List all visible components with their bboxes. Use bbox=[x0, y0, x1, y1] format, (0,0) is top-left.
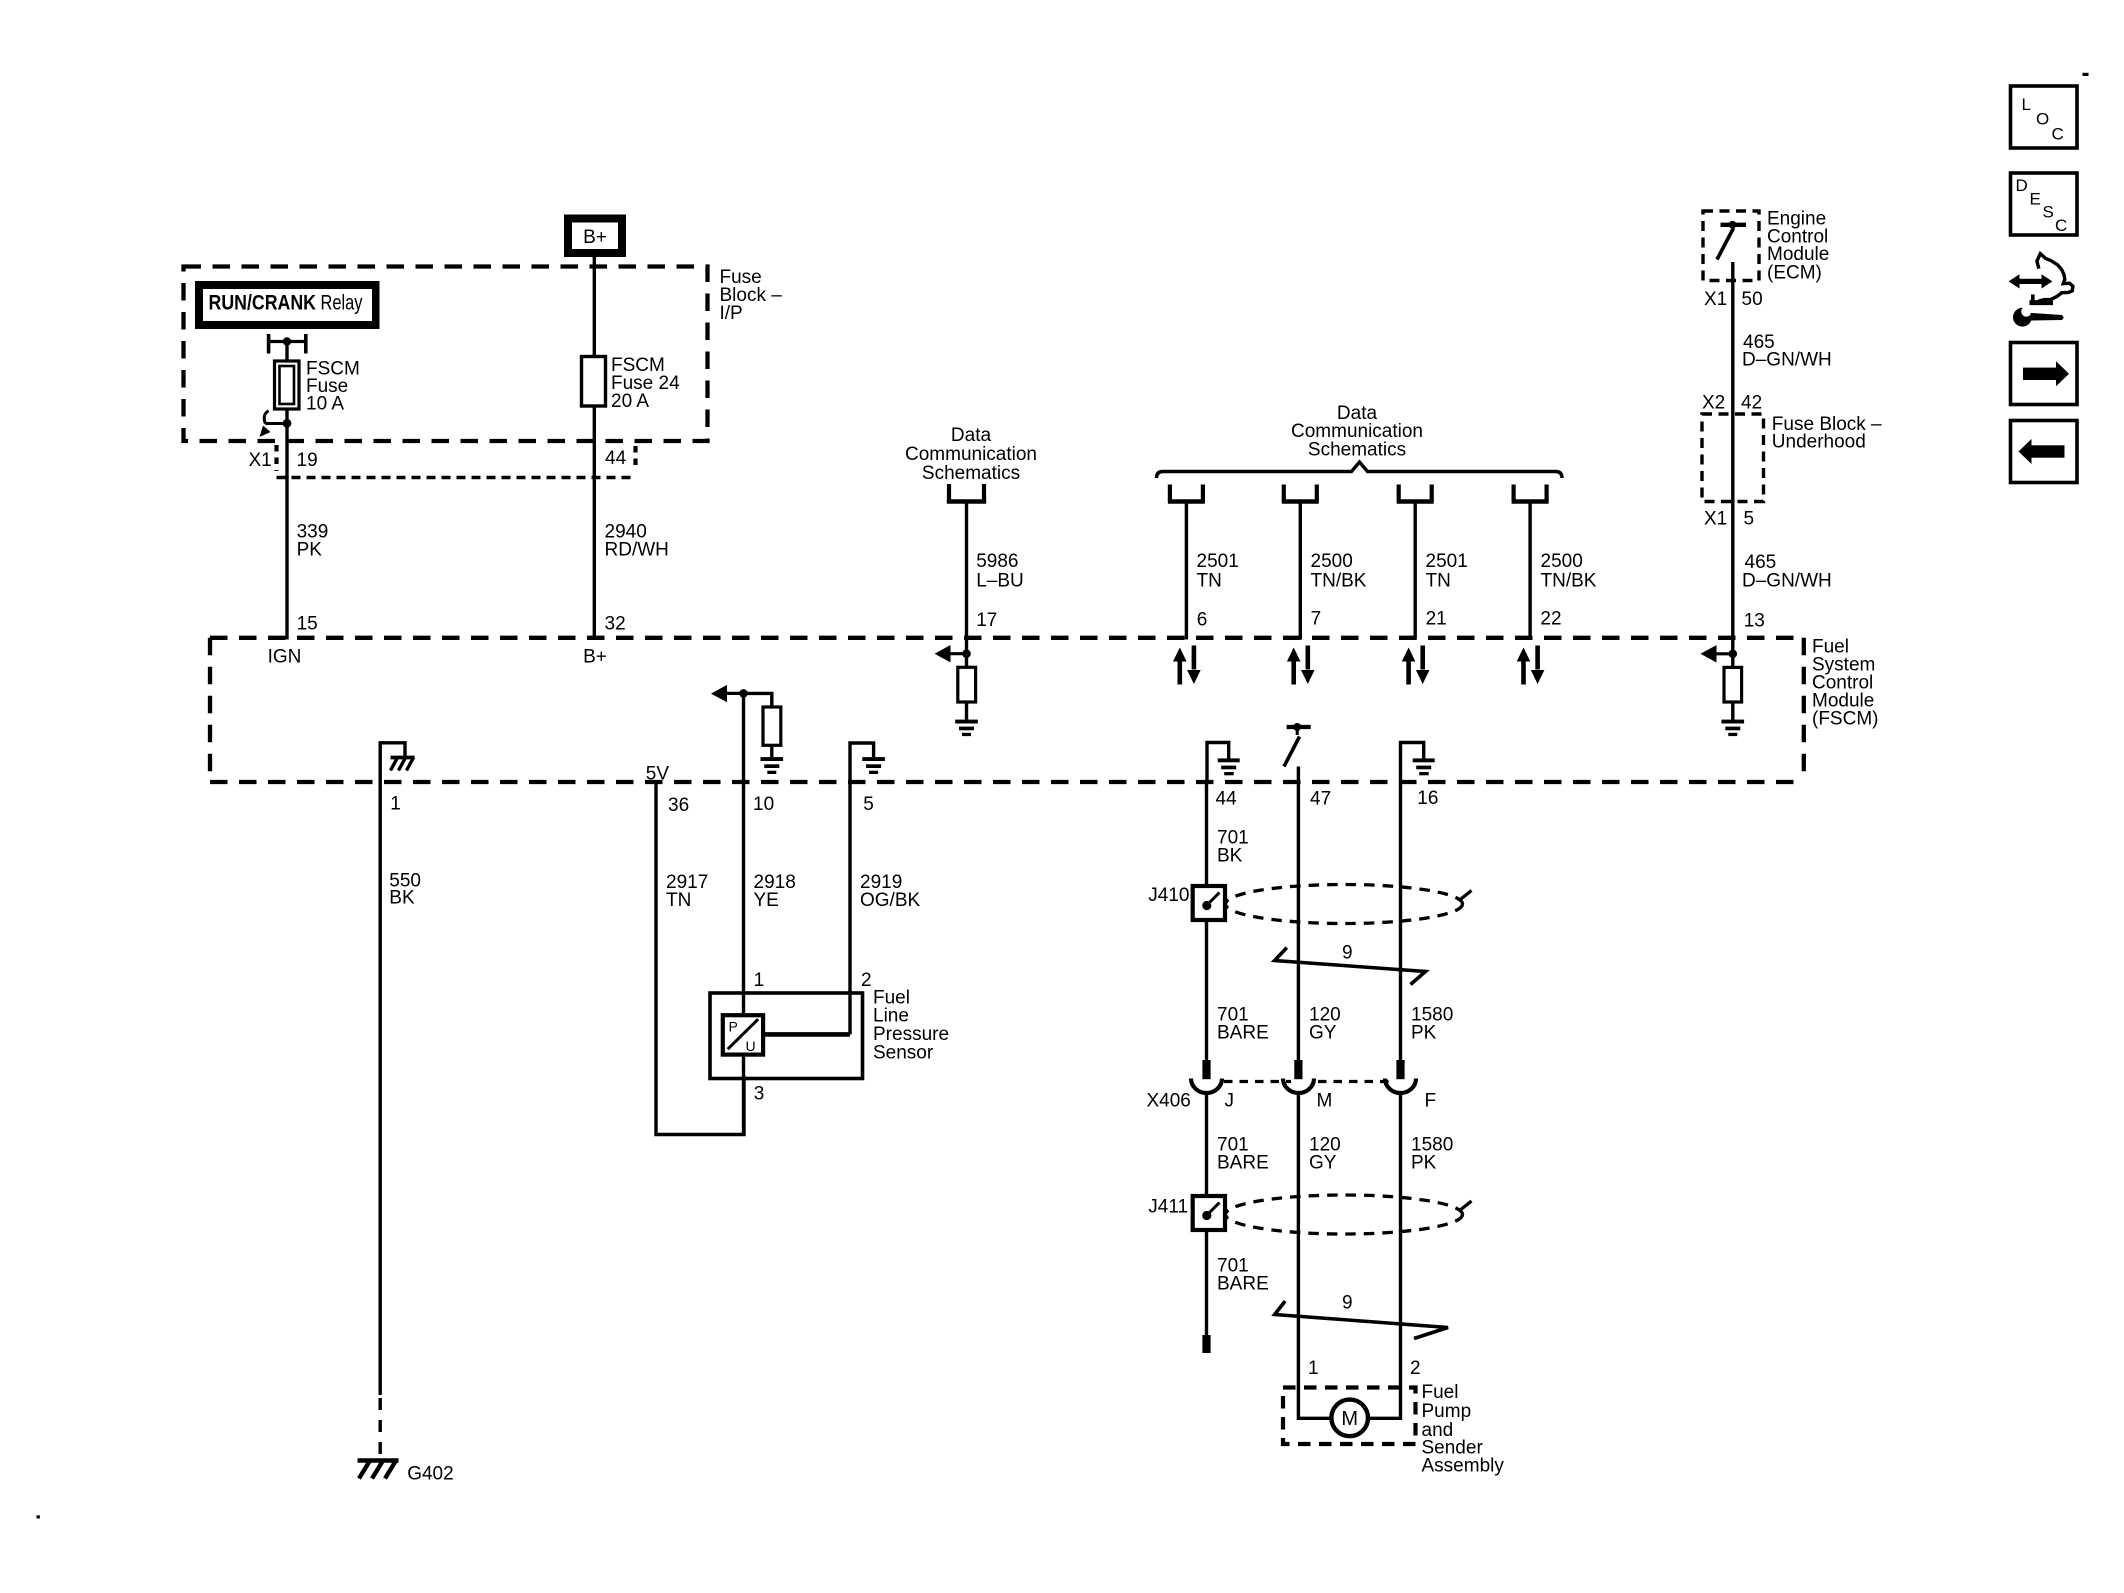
svg-text:C: C bbox=[2052, 125, 2064, 144]
wire 1580 PK pin 16 to X406 bbox=[1401, 782, 1454, 1060]
wire 1580 PK X406 to pump pin 2 bbox=[1368, 1093, 1453, 1418]
icon DESC box bbox=[2011, 173, 2078, 235]
svg-text:M: M bbox=[1341, 1408, 1358, 1430]
pin 21 data arrows bbox=[1402, 646, 1430, 685]
svg-text:TN: TN bbox=[666, 890, 691, 911]
wire 701 BARE below J411 to terminal end bbox=[1207, 1230, 1269, 1335]
svg-text:I/P: I/P bbox=[720, 303, 743, 324]
svg-text:(FSCM): (FSCM) bbox=[1812, 709, 1878, 730]
svg-text:S: S bbox=[2043, 203, 2054, 222]
svg-text:2: 2 bbox=[1410, 1358, 1421, 1379]
icon LOC box bbox=[2011, 86, 2078, 148]
svg-text:B+: B+ bbox=[583, 647, 607, 668]
off-page connector pin 6 bbox=[1168, 485, 1205, 502]
svg-text:(ECM): (ECM) bbox=[1767, 263, 1822, 284]
fuse FSCM Fuse 10 A bbox=[275, 359, 360, 415]
svg-text:1: 1 bbox=[390, 794, 401, 815]
svg-text:5: 5 bbox=[1744, 509, 1755, 530]
svg-text:D–GN/WH: D–GN/WH bbox=[1742, 571, 1832, 592]
svg-text:Assembly: Assembly bbox=[1422, 1456, 1505, 1477]
wire 5986 L-BU to pin 17 bbox=[967, 502, 1024, 640]
svg-text:L: L bbox=[2022, 95, 2031, 114]
connector X1 band pins 19 and 44 bbox=[249, 445, 636, 478]
svg-text:L–BU: L–BU bbox=[976, 571, 1024, 592]
svg-text:P: P bbox=[729, 1019, 738, 1035]
svg-text:X1: X1 bbox=[1704, 509, 1727, 530]
FSCM module dashed box bbox=[210, 637, 1878, 783]
wire 2500 TN/BK pin 7 bbox=[1300, 502, 1366, 640]
svg-text:32: 32 bbox=[605, 613, 626, 634]
bare wire end terminal bbox=[1202, 1335, 1210, 1353]
svg-text:1: 1 bbox=[1308, 1358, 1319, 1379]
pin 6 data arrows bbox=[1173, 646, 1201, 685]
svg-text:D: D bbox=[2016, 176, 2028, 195]
svg-text:U: U bbox=[746, 1038, 756, 1054]
svg-text:TN: TN bbox=[1197, 571, 1222, 592]
svg-text:2500: 2500 bbox=[1311, 551, 1353, 572]
svg-text:7: 7 bbox=[1311, 609, 1322, 630]
svg-text:44: 44 bbox=[605, 448, 627, 469]
P/U transducer symbol bbox=[723, 1015, 763, 1054]
svg-text:GY: GY bbox=[1309, 1153, 1337, 1174]
svg-text:9: 9 bbox=[1342, 1293, 1353, 1314]
svg-text:42: 42 bbox=[1741, 393, 1762, 414]
svg-text:19: 19 bbox=[297, 450, 318, 471]
svg-text:X406: X406 bbox=[1147, 1091, 1191, 1112]
svg-text:36: 36 bbox=[668, 795, 689, 816]
svg-text:22: 22 bbox=[1540, 609, 1561, 630]
svg-text:5V: 5V bbox=[646, 764, 670, 785]
wire 550 BK to ground G402 bbox=[380, 782, 421, 1458]
svg-text:5: 5 bbox=[863, 794, 874, 815]
svg-text:Sensor: Sensor bbox=[873, 1043, 934, 1064]
svg-text:F: F bbox=[1425, 1091, 1437, 1112]
svg-text:6: 6 bbox=[1197, 609, 1208, 630]
svg-text:20 A: 20 A bbox=[611, 391, 649, 412]
sensor internal connection pin2 to P/U bbox=[763, 1032, 850, 1037]
off-page connector pin 7 bbox=[1282, 485, 1319, 502]
wire 2501 TN pin 21 bbox=[1415, 502, 1468, 640]
svg-text:17: 17 bbox=[976, 610, 997, 631]
wire 2917 TN pin 36 to sensor pin 3 bbox=[656, 782, 744, 1135]
svg-text:RUN/CRANK: RUN/CRANK bbox=[209, 292, 317, 315]
wire 701 BARE X406 to J411 bbox=[1207, 1093, 1269, 1196]
svg-text:16: 16 bbox=[1417, 788, 1438, 809]
off-page connector pin 21 bbox=[1397, 485, 1434, 502]
svg-text:13: 13 bbox=[1744, 611, 1765, 632]
relay RUN/CRANK bbox=[195, 281, 380, 329]
svg-text:TN/BK: TN/BK bbox=[1541, 571, 1597, 592]
node Data Communication Schematics (right, with brace) bbox=[1157, 403, 1563, 478]
wire B+ to fuse 24 bbox=[593, 257, 596, 357]
fuel pump and sender assembly dashed box bbox=[1283, 1358, 1504, 1477]
svg-text:TN: TN bbox=[1426, 571, 1451, 592]
svg-text:X1: X1 bbox=[1704, 289, 1727, 310]
svg-text:X2: X2 bbox=[1702, 393, 1725, 414]
wire 701 BK pin 44 to splice J410 bbox=[1207, 782, 1249, 886]
off-page connector pin 22 bbox=[1512, 485, 1549, 502]
fuse block underhood dashed box bbox=[1702, 414, 1882, 502]
pin 16 internal: ground elbow bbox=[1401, 743, 1435, 783]
wire fuse 24 to FSCM pin 32 bbox=[593, 406, 596, 640]
svg-text:TN/BK: TN/BK bbox=[1311, 571, 1367, 592]
twisted/shield loop at J411 bbox=[1226, 1195, 1472, 1234]
wire 2940 RD/WH labels bbox=[605, 522, 669, 635]
wire fuse 10A down through connector to FSCM pin 15 bbox=[285, 409, 288, 640]
ground G402 bbox=[358, 1461, 454, 1485]
svg-text:D–GN/WH: D–GN/WH bbox=[1742, 350, 1832, 371]
wire 120 GY X406 to pump pin 1 bbox=[1298, 1093, 1340, 1418]
svg-text:2501: 2501 bbox=[1426, 551, 1468, 572]
svg-text:BARE: BARE bbox=[1217, 1274, 1269, 1295]
svg-text:BK: BK bbox=[1217, 846, 1243, 867]
icon back arrow box bbox=[2011, 421, 2078, 483]
pin 17 internal: termination resistor to ground bbox=[935, 640, 978, 737]
svg-text:J: J bbox=[1225, 1091, 1235, 1112]
svg-text:21: 21 bbox=[1426, 609, 1447, 630]
wire 2918 YE pin 10 to sensor pin 1 bbox=[744, 782, 796, 1135]
fuse block I/P dashed box bbox=[184, 267, 783, 442]
pin 7 data arrows bbox=[1287, 646, 1315, 685]
svg-text:C: C bbox=[2055, 216, 2067, 235]
svg-text:Relay: Relay bbox=[321, 292, 363, 315]
svg-text:PK: PK bbox=[1411, 1023, 1437, 1044]
icon forward arrow box bbox=[2011, 343, 2078, 405]
svg-text:YE: YE bbox=[754, 890, 779, 911]
wire 465 D-GN/WH ECM to underhood fuse block bbox=[1702, 262, 1832, 640]
stray scan mark top right bbox=[2083, 73, 2089, 76]
svg-text:Pump: Pump bbox=[1422, 1401, 1472, 1422]
svg-text:3: 3 bbox=[754, 1084, 765, 1105]
svg-text:2501: 2501 bbox=[1197, 551, 1239, 572]
svg-text:E: E bbox=[2030, 190, 2041, 209]
svg-text:BARE: BARE bbox=[1217, 1023, 1269, 1044]
wire 2919 OG/BK pin 5 to sensor pin 2 bbox=[850, 782, 921, 1034]
wire 465 D-GN/WH to FSCM pin 13 labels bbox=[1704, 509, 1832, 632]
shield drain symbol 9 (upper) bbox=[1275, 943, 1426, 985]
icon car with double arrow and wrench bbox=[2009, 254, 2073, 327]
svg-text:Fuel: Fuel bbox=[1422, 1382, 1459, 1403]
svg-text:2500: 2500 bbox=[1541, 551, 1583, 572]
svg-text:GY: GY bbox=[1309, 1023, 1337, 1044]
svg-text:Underhood: Underhood bbox=[1772, 432, 1866, 453]
switch inside ECM bbox=[1717, 221, 1746, 260]
svg-text:PK: PK bbox=[297, 540, 323, 561]
svg-text:9: 9 bbox=[1342, 943, 1353, 964]
wire 2501 TN pin 6 bbox=[1186, 502, 1238, 640]
motor M fuel pump bbox=[1331, 1400, 1368, 1437]
wire 339 PK labels bbox=[297, 522, 329, 635]
svg-text:J411: J411 bbox=[1148, 1197, 1188, 1218]
svg-text:50: 50 bbox=[1742, 289, 1763, 310]
splice J410 bbox=[1148, 885, 1225, 920]
off-page connector for wire 5986 bbox=[947, 484, 986, 502]
relay output terminal bracket bbox=[269, 334, 306, 354]
pin 47 internal: fuel pump driver switch bbox=[1284, 723, 1311, 782]
shield drain symbol 9 (lower) bbox=[1275, 1293, 1448, 1339]
svg-text:Communication: Communication bbox=[905, 444, 1037, 465]
twisted/shield loop at J410 bbox=[1226, 885, 1472, 924]
svg-text:5986: 5986 bbox=[976, 551, 1018, 572]
svg-text:J410: J410 bbox=[1148, 885, 1189, 906]
svg-text:PK: PK bbox=[1411, 1153, 1437, 1174]
svg-text:OG/BK: OG/BK bbox=[860, 890, 921, 911]
wire 120 GY pin 47 to X406 bbox=[1298, 782, 1340, 1060]
svg-text:Data: Data bbox=[951, 425, 992, 446]
svg-text:BARE: BARE bbox=[1217, 1153, 1269, 1174]
svg-text:1: 1 bbox=[754, 970, 765, 991]
svg-text:IGN: IGN bbox=[268, 647, 302, 668]
svg-text:2: 2 bbox=[861, 970, 872, 991]
svg-text:G402: G402 bbox=[407, 1463, 453, 1484]
svg-text:10 A: 10 A bbox=[306, 394, 344, 415]
svg-text:15: 15 bbox=[297, 613, 318, 634]
ECM dashed box bbox=[1703, 209, 1829, 284]
svg-text:Schematics: Schematics bbox=[1308, 440, 1406, 461]
svg-text:M: M bbox=[1317, 1091, 1333, 1112]
pin labels along FSCM bottom bbox=[390, 788, 1438, 816]
wire relay to fuse 10A bbox=[285, 342, 288, 362]
pin 44 internal: ground elbow bbox=[1207, 743, 1240, 783]
svg-text:BK: BK bbox=[389, 887, 415, 908]
connector hook symbol at fuse block exit bbox=[260, 411, 292, 437]
node Data Communication Schematics (left) bbox=[905, 425, 1037, 484]
svg-text:10: 10 bbox=[753, 794, 774, 815]
B+ power node bbox=[568, 219, 622, 254]
splice J411 bbox=[1148, 1196, 1225, 1230]
fuel line pressure sensor box bbox=[710, 970, 949, 1105]
wire 701 BARE J410 to X406 bbox=[1207, 920, 1269, 1060]
svg-text:B+: B+ bbox=[583, 227, 607, 248]
svg-text:44: 44 bbox=[1216, 789, 1238, 810]
pin 22 data arrows bbox=[1517, 646, 1545, 685]
svg-text:RD/WH: RD/WH bbox=[605, 540, 669, 561]
svg-text:O: O bbox=[2036, 110, 2049, 129]
pin 1 internal: chassis ground elbow bbox=[380, 743, 414, 782]
pin 13 internal: termination resistor to ground bbox=[1701, 640, 1745, 737]
svg-text:Schematics: Schematics bbox=[922, 463, 1020, 484]
svg-text:X1: X1 bbox=[249, 450, 272, 471]
pin 10 internal: 5V pull-up resistor to ground bbox=[711, 685, 783, 782]
stray scan mark bottom left bbox=[37, 1515, 40, 1518]
wire 2500 TN/BK pin 22 bbox=[1530, 502, 1597, 640]
connector X406 terminals bbox=[1147, 1060, 1437, 1112]
pin 5 internal: ground elbow bbox=[850, 743, 885, 782]
fuse FSCM Fuse 24 20 A bbox=[582, 355, 681, 412]
svg-text:47: 47 bbox=[1310, 789, 1331, 810]
